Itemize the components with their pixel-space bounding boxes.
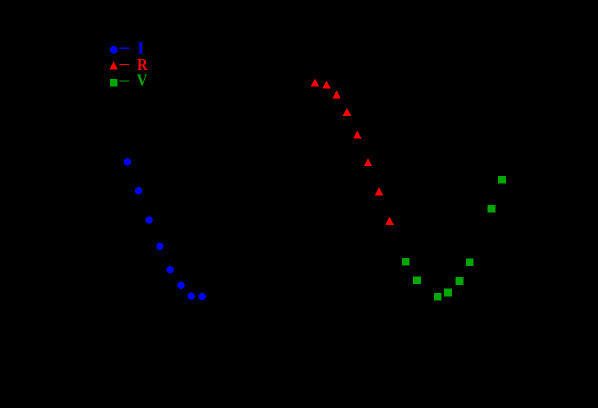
svg-text:V: V	[137, 70, 148, 89]
point R8	[385, 217, 393, 225]
legend marker triangle R	[110, 61, 118, 69]
point I5	[166, 266, 173, 273]
legend line I	[119, 48, 129, 49]
point R4	[343, 108, 351, 116]
legend marker circle I	[110, 46, 118, 54]
point R1	[311, 78, 319, 86]
point R7	[375, 187, 383, 195]
legend line V	[119, 80, 129, 81]
point V8	[466, 258, 474, 266]
point V4	[413, 277, 421, 285]
point I1	[124, 158, 131, 165]
point I4	[156, 243, 163, 250]
point R6	[364, 158, 372, 166]
point R3	[332, 90, 340, 98]
point R5	[353, 131, 361, 139]
point I7	[188, 292, 195, 299]
point V6	[444, 289, 452, 297]
point I2	[135, 187, 142, 194]
point V3	[402, 258, 410, 266]
point V2	[488, 205, 496, 213]
point V1	[498, 176, 506, 184]
point V7	[456, 277, 464, 285]
point I8	[199, 293, 206, 300]
point I6	[177, 282, 184, 289]
legend marker square V	[110, 79, 118, 87]
point I3	[145, 216, 152, 223]
legend line R	[119, 64, 129, 65]
point V5	[434, 293, 442, 301]
point R2	[322, 80, 330, 88]
